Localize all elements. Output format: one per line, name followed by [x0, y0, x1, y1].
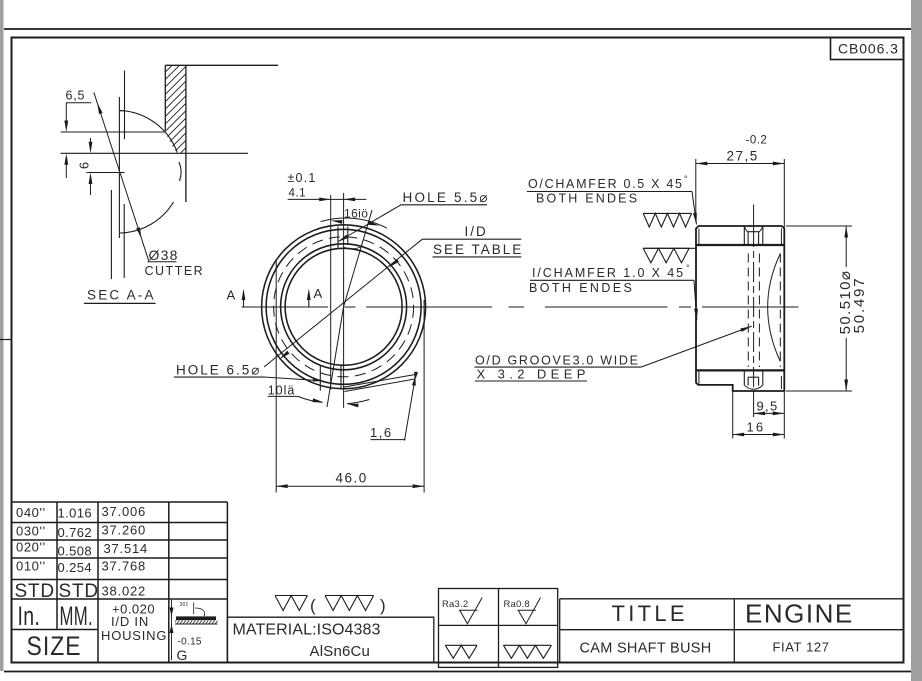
I/CHAMFER leader	[694, 280, 697, 320]
svg-text:MM.: MM.	[60, 601, 93, 631]
bush edge vertical v3	[110, 190, 112, 279]
svg-text:(: (	[310, 596, 316, 615]
svg-text:37.260: 37.260	[102, 523, 147, 538]
svg-text:040'': 040''	[16, 505, 46, 520]
svg-text:A: A	[314, 286, 323, 301]
svg-text:Ra0.8: Ra0.8	[504, 599, 530, 610]
groove center extension line	[753, 205, 755, 228]
groove bottom line	[87, 172, 125, 174]
hole offset axis line	[330, 195, 332, 390]
cutter circle top arc	[120, 111, 177, 153]
svg-text:0.508: 0.508	[58, 544, 93, 559]
svg-text:G: G	[177, 647, 188, 663]
svg-text:010'': 010''	[16, 559, 46, 574]
svg-text:10lä: 10lä	[268, 384, 296, 398]
dimension 46.0 extension lines	[275, 260, 277, 493]
svg-text:27,5: 27,5	[727, 149, 759, 164]
groove profile small arc	[179, 162, 181, 181]
svg-text:X 3.2 DEEP: X 3.2 DEEP	[477, 366, 590, 381]
svg-text:TITLE: TITLE	[612, 601, 688, 626]
svg-text:I/D IN: I/D IN	[111, 614, 149, 629]
dimension 46.0	[276, 485, 424, 487]
svg-text:AlSn6Cu: AlSn6Cu	[310, 643, 371, 660]
hole 6.5 inclined axis	[327, 307, 344, 408]
svg-text:38.022: 38.022	[102, 584, 147, 599]
svg-text:ENGINE: ENGINE	[745, 599, 854, 629]
bore top wall thick line	[696, 244, 784, 246]
cutter center vertical v2	[118, 97, 120, 238]
bush outer circle	[262, 225, 426, 389]
svg-text:In.: In.	[18, 601, 41, 631]
bush bore circle	[281, 244, 407, 370]
bush bore chamfer circle	[285, 248, 402, 365]
svg-text:HOLE 5.5⌀: HOLE 5.5⌀	[403, 190, 490, 205]
svg-text:A: A	[227, 288, 236, 303]
title block grid	[559, 599, 561, 663]
svg-text:37.006: 37.006	[102, 504, 147, 519]
svg-text:0.254: 0.254	[58, 560, 93, 575]
sheet top edge line	[4, 28, 911, 30]
dimension 1,6	[405, 372, 417, 441]
surface finish triangles row 1	[643, 213, 691, 227]
svg-text:6,5: 6,5	[66, 89, 86, 103]
sheet bottom edge line	[4, 671, 911, 673]
svg-text:): )	[380, 596, 386, 615]
table row SIZE	[27, 631, 82, 661]
svg-text:STD: STD	[15, 581, 55, 602]
svg-text:SEE TABLE: SEE TABLE	[433, 242, 523, 257]
svg-text:°: °	[686, 263, 690, 273]
cutter diameter leader line	[94, 92, 149, 261]
svg-text:301: 301	[180, 602, 189, 608]
cutter arc start tick	[119, 110, 124, 112]
svg-text:BOTH ENDES: BOTH ENDES	[529, 281, 634, 295]
hole 6.5 wall lines at bottom	[319, 366, 321, 391]
bore back wall arc	[768, 254, 781, 362]
housing fit mini diagram	[176, 616, 216, 620]
svg-text:O/CHAMFER 0.5 X 45: O/CHAMFER 0.5 X 45	[528, 177, 684, 191]
hole 5.5 wall lines at top	[337, 227, 339, 249]
svg-text:50.497: 50.497	[851, 277, 868, 334]
bore bottom wall thick line	[696, 369, 784, 371]
O/D groove top notch	[743, 226, 745, 245]
svg-text:SEC A-A: SEC A-A	[87, 288, 156, 303]
svg-text:HOUSING: HOUSING	[101, 628, 167, 643]
dimension 50.510/50.497 dia	[786, 225, 852, 227]
svg-text:°: °	[684, 174, 688, 184]
O/CHAMFER leader	[692, 192, 697, 225]
svg-text:020'': 020''	[16, 540, 46, 555]
groove hidden dashed circle	[274, 237, 414, 377]
svg-text:-0.2: -0.2	[746, 135, 768, 147]
cutter circle bottom arc	[120, 202, 174, 233]
svg-text:BOTH ENDES: BOTH ENDES	[536, 192, 639, 206]
table row In MM	[18, 601, 41, 631]
groove top line	[61, 131, 166, 133]
I/D leader diagonal	[264, 239, 422, 367]
section marker A left	[243, 293, 245, 307]
svg-text:1,6: 1,6	[370, 425, 393, 440]
hidden groove depth dashed lines	[747, 254, 749, 368]
bush edge vertical v4	[123, 204, 125, 278]
svg-text:9,5: 9,5	[757, 399, 779, 414]
svg-text:CAM SHAFT BUSH: CAM SHAFT BUSH	[580, 641, 712, 657]
svg-text:Ra3.2: Ra3.2	[442, 599, 468, 610]
hole 5.5 bottom arc	[344, 246, 363, 249]
roughness legend box	[439, 589, 558, 668]
svg-text:-0.15: -0.15	[178, 637, 202, 648]
svg-text:46.0: 46.0	[336, 471, 368, 486]
section marker A inner	[308, 293, 310, 307]
three triangle symbol	[503, 645, 551, 658]
two triangle symbol	[445, 645, 477, 658]
svg-text:4.1: 4.1	[289, 188, 307, 200]
svg-text:16: 16	[747, 420, 766, 435]
svg-text:CUTTER: CUTTER	[145, 264, 205, 278]
svg-text:FIAT 127: FIAT 127	[773, 640, 830, 655]
svg-text:±0.1: ±0.1	[288, 171, 317, 185]
frame left center tick	[0, 339, 12, 341]
dimension 16	[732, 391, 734, 439]
svg-text:SIZE: SIZE	[27, 631, 82, 661]
svg-text:0.762: 0.762	[58, 525, 93, 540]
drawing number box CB006.3	[831, 38, 904, 60]
svg-text:MATERIAL:ISO4383: MATERIAL:ISO4383	[233, 622, 381, 639]
O/D groove leader	[641, 326, 752, 367]
svg-text:O/D GROOVE3.0 WIDE: O/D GROOVE3.0 WIDE	[475, 353, 640, 367]
hidden hole dashed line	[779, 254, 781, 368]
wall top edge line	[165, 64, 278, 66]
wall section outline left edge	[164, 65, 166, 131]
dimension 1,6 extension lines	[343, 375, 415, 388]
vertical centerline	[343, 193, 345, 408]
surface finish triangles row 2	[643, 248, 689, 262]
svg-text:1.016: 1.016	[58, 506, 93, 521]
O/D groove bottom notch	[743, 370, 745, 385]
svg-text:I/D: I/D	[465, 224, 488, 239]
svg-text:CB006.3: CB006.3	[838, 41, 899, 57]
side view part outline	[696, 226, 784, 391]
size table grid	[11, 501, 228, 503]
wall right edge line	[185, 65, 187, 202]
bush outer chamfer circle	[266, 229, 421, 384]
side view chamfer inner lines	[698, 229, 700, 245]
groove centerline	[61, 152, 248, 154]
bush inner edge vertical v1	[124, 71, 126, 140]
svg-text:Ø38: Ø38	[149, 247, 179, 263]
hole 5.5 leader	[338, 205, 402, 242]
svg-text:6: 6	[78, 161, 92, 169]
horizontal centerline	[242, 306, 328, 308]
hole 5.5 inclined axis	[344, 210, 372, 307]
svg-text:HOLE 6.5⌀: HOLE 6.5⌀	[176, 362, 261, 377]
svg-text:37.514: 37.514	[104, 541, 149, 556]
svg-text:030'': 030''	[16, 524, 46, 539]
svg-text:I/CHAMFER 1.0 X 45: I/CHAMFER 1.0 X 45	[532, 266, 685, 280]
svg-text:37.768: 37.768	[102, 559, 147, 574]
hole 6.5 leader	[266, 377, 322, 381]
material box	[227, 617, 433, 662]
svg-text:STD: STD	[59, 581, 99, 602]
surface symbols above material box	[275, 596, 307, 611]
